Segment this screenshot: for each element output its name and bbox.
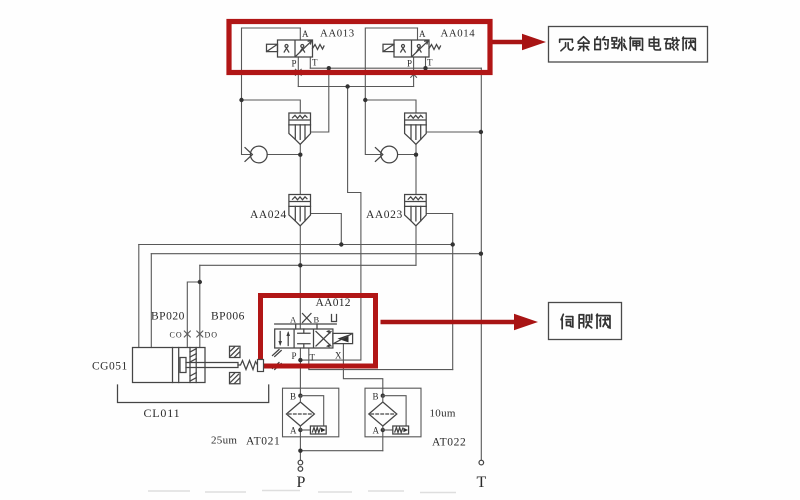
node: P manifold tap [298,449,302,453]
arrowhead on AA013 P drop [295,69,301,75]
node: rail1 / servo T riser [451,242,455,246]
rod collar [180,358,186,373]
red arrow to trip solenoid label [493,34,547,50]
svg-text:P: P [292,351,298,361]
wire: rail1 left drop to cylinder [138,245,140,348]
filter AT022 enclosure [365,388,421,437]
flow path diagonal in right box [296,42,311,57]
wire: center P supply from P-rail jog down to servo P [300,87,361,361]
wire: AA024 tip down through rails into servo A [299,226,301,329]
wire: AA014 subplate A-line (enclosure top + left drop to node R1) [365,28,417,100]
wire: rail3 AA023 tip manifold [200,264,416,266]
svg-text:T: T [427,58,434,68]
svg-text:BP020: BP020 [151,311,185,323]
wire: node R1 branch to upper cartridge 2 top [365,100,416,113]
piston [173,348,179,383]
wire: rail3 drop to node CD [199,265,201,282]
rod gland hatched band [190,348,196,383]
node CD [198,280,202,284]
node: rail3 / AA024 column [298,263,302,267]
svg-text:CG051: CG051 [92,361,128,373]
wire: node CD to DO port drop [199,282,201,348]
red highlight box around servo valve AA012 [261,296,376,367]
cartridge valve upper-left (insert above AA024) [289,113,311,144]
svg-text:P: P [297,474,307,491]
svg-text:A: A [302,29,310,39]
node: AT021 A [298,428,302,432]
wire: node L1 down to left check valve [242,100,251,155]
wire: rail1 (cylinder left port manifold) [139,244,453,246]
red arrow to servo valve label [381,314,539,330]
feedback spring from cylinder rod to servo [238,361,260,370]
wire: rail2 to main T line [151,253,481,255]
node: P-rail center tap [345,84,349,88]
filter AT021 enclosure [283,388,339,437]
node: right check valve junction [414,153,418,157]
wire: main T line down to T port [480,68,482,459]
wire: AA014 P drop to P-rail [413,57,415,87]
wall mount hatch lower [230,373,241,384]
svg-text:A: A [290,426,298,436]
svg-text:B: B [373,392,380,402]
servo valve AA012 body [275,329,353,348]
wire: servo T port run [309,348,453,370]
right position crossed arrows [316,332,331,347]
cartridge valve AA024 [289,195,311,226]
svg-text:AA014: AA014 [441,28,476,40]
wire: node R1 down to right check valve [365,100,381,155]
callout box: redundant trip solenoid valve [549,27,708,63]
wire: AT021 filtrate down to P manifold [299,430,301,451]
node: AT022 A [381,428,385,432]
svg-text:P: P [407,59,413,69]
svg-text:CO: CO [170,331,183,340]
node: AA014 T stub on T-rail [423,66,427,70]
svg-text:AT022: AT022 [432,437,466,449]
svg-text:AA024: AA024 [250,209,287,221]
wire: servo X pilot to AT022 B [343,344,382,396]
port X mark CO [184,331,190,337]
svg-text:10um: 10um [430,408,456,420]
svg-text:AA023: AA023 [366,209,403,221]
wire: AA023 tip down to rail3 end [415,226,417,265]
svg-text:B: B [290,392,297,402]
mechanical feedback linkage marks [273,350,282,370]
svg-text:25um: 25um [211,435,237,447]
U mark at gauge line end [332,315,337,322]
arrowhead on AA014 P drop [411,71,417,77]
P port symbol [298,460,303,471]
node R1 [363,98,367,102]
svg-text:X: X [335,351,343,361]
node: left check valve junction [298,153,302,157]
wall mount hatch upper [230,346,241,357]
svg-text:BP006: BP006 [211,311,245,323]
wire: AA013 T stub [309,57,311,68]
wire: P-rail between solenoid valves [298,86,413,88]
svg-text:AA012: AA012 [316,297,351,309]
svg-text:DO: DO [205,331,219,340]
proportional solenoid of AA012 [333,333,353,343]
red highlight box around trip solenoid valves [229,22,490,73]
hydraulic cylinder CG051 [133,331,239,383]
cartridge valve AA023 [405,195,427,226]
svg-text:A: A [290,315,297,325]
svg-text:CL011: CL011 [144,406,181,420]
wire: left check valve outlet to cartridge column [267,154,300,156]
svg-text:T: T [477,474,488,491]
solenoid coil AA013 [267,44,278,51]
wire: AA013 subplate A-line (enclosure top + left drop to node L1) [242,28,301,100]
wire: AA013 P drop to P-rail [297,57,299,87]
CL011 mounting bracket [118,385,269,403]
wire: P supply manifold [300,450,382,452]
wire: column upper cartridge 2 tip to AA023 top [415,144,417,194]
svg-text:A: A [373,426,381,436]
node: AA024 right port on rail1 [339,242,343,246]
wire: AA013 A port riser [299,28,301,40]
svg-text:P: P [292,59,298,69]
check valve left [245,146,267,163]
wire: AA024 right port down to rail1 [311,214,342,245]
node: rail2 on main T line [479,252,483,256]
wire: AT022 filtrate down to P manifold [382,430,384,451]
callout box: servo valve [549,303,622,340]
wire: servo P down to AT021 B [299,348,301,396]
T port symbol [479,460,484,465]
wire: node L1 branch to upper cartridge 1 top [242,100,301,113]
svg-text:T: T [310,353,317,363]
return spring AA014 [429,45,441,50]
svg-text:B: B [314,315,321,325]
wire: AA014 T stub [425,57,427,68]
solenoid valve AA014 [383,40,441,77]
node: servo P [298,358,302,362]
node L1 [239,98,243,102]
svg-text:AA013: AA013 [320,28,355,40]
cartridge valve upper-right (insert above AA023) [405,113,427,144]
wire: P port drop [299,451,301,460]
svg-text:T: T [312,58,319,68]
center position blocked ports [298,329,310,348]
wire: T-rail to right main T line [310,67,481,69]
wire: AA023 right port / servo T riser [427,214,453,370]
bypass valve AT021 [300,396,323,426]
piston rod [186,363,238,368]
node: AT022 B [381,394,385,398]
flow path diagonal in right box [413,42,428,57]
bypass valve AT022 [383,396,406,426]
wire: branch T-rail down to upper cartridge 1 right port [311,68,329,132]
node: T-rail / cartridge1 branch [327,66,331,70]
svg-text:AT021: AT021 [246,436,280,448]
callout text: 冗余的跳闸电磁阀 (drawn glyphs) [560,37,696,51]
wire: column upper cartridge 1 tip to AA024 top [299,144,301,194]
left position arrows [287,333,289,346]
node: cartridge2 right port on T line [479,130,483,134]
wire: rail2 left drop to cylinder [150,254,152,348]
wire: right check valve outlet to cartridge column [398,154,416,156]
plugged port X mark above servo [303,314,312,323]
filter element diamond AT021 [286,402,314,426]
wire: AA014 A port riser [417,28,419,40]
faint cropped caption remnants at bottom [148,491,456,493]
filter element diamond AT022 [369,402,397,426]
callout text: 伺服阀 (drawn glyphs) [561,314,610,329]
spring-to-spool coupler overlaying red border [258,360,264,372]
node: AT021 B [298,394,302,398]
wire: upper cartridge 2 right port to main T line [427,131,481,133]
solenoid coil AA014 [383,44,394,51]
solenoid valve AA013 [267,40,325,75]
wire: node CD to CO port drop [187,282,200,348]
svg-text:A: A [419,29,427,39]
port X mark DO [197,331,203,337]
servo valve U1 AA012 gauge line with A B ports [275,314,337,330]
return spring AA013 [313,45,325,50]
check valve right [375,146,397,163]
